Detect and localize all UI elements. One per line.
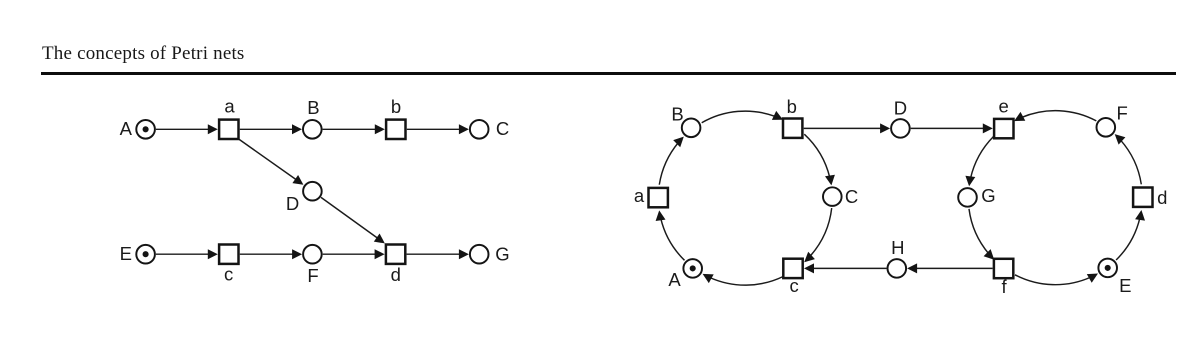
arc B->b <box>702 111 783 123</box>
wire D->e <box>911 123 993 133</box>
transition b <box>386 120 405 139</box>
token in place A (cycle) <box>690 265 696 271</box>
wire B->b <box>323 124 385 134</box>
arc c->A <box>703 274 783 285</box>
svg-text:d: d <box>1157 187 1167 208</box>
arc e->G <box>965 137 993 187</box>
transition c (cycle) <box>783 259 802 278</box>
wire f->H <box>907 263 993 273</box>
svg-text:C: C <box>845 186 858 207</box>
place E (cycle) <box>1098 259 1117 278</box>
svg-text:E: E <box>120 243 132 264</box>
place G <box>470 245 489 264</box>
token in place E (cycle) <box>1105 265 1111 271</box>
transition a <box>219 120 238 139</box>
wire D->d <box>321 197 385 243</box>
svg-text:b: b <box>787 96 797 117</box>
arc E->d <box>1116 210 1145 260</box>
svg-text:A: A <box>120 118 133 139</box>
place C (cycle) <box>823 187 842 206</box>
svg-text:D: D <box>894 97 907 118</box>
heading rule <box>41 72 1176 75</box>
svg-text:e: e <box>998 95 1008 116</box>
place B (cycle) <box>682 119 701 138</box>
wire b->C <box>407 124 469 134</box>
transition c <box>219 245 238 264</box>
svg-text:D: D <box>286 193 299 214</box>
svg-text:c: c <box>224 264 233 285</box>
svg-text:a: a <box>224 96 235 117</box>
wire H->c2 <box>804 263 887 273</box>
page heading <box>42 43 245 65</box>
arc f->E <box>1015 274 1098 285</box>
wire E->c <box>156 249 218 259</box>
wire d->G <box>407 249 469 259</box>
wire c->F <box>240 249 302 259</box>
place C <box>470 120 489 139</box>
wire b->D <box>804 123 890 133</box>
svg-text:E: E <box>1119 275 1131 296</box>
transition b (cycle) <box>783 119 802 138</box>
arc d->F <box>1115 134 1142 184</box>
svg-text:B: B <box>307 97 319 118</box>
place D <box>303 182 322 201</box>
arc G->f <box>969 209 994 260</box>
token in place E <box>143 251 149 257</box>
place A (cycle) <box>683 259 702 278</box>
transition f (cycle) <box>994 259 1013 278</box>
transition d <box>386 245 405 264</box>
arc F->e <box>1014 111 1096 121</box>
place G (cycle) <box>958 188 977 207</box>
wire F->d <box>323 249 385 259</box>
place H (middle) <box>888 259 907 278</box>
transition d (cycle) <box>1133 188 1152 207</box>
svg-text:F: F <box>307 265 318 286</box>
place B <box>303 120 322 139</box>
wire A->a <box>156 124 218 134</box>
place F <box>303 245 322 264</box>
wire a->D <box>238 139 303 185</box>
svg-text:d: d <box>391 264 401 285</box>
place F (cycle) <box>1097 118 1116 137</box>
svg-text:H: H <box>891 237 904 258</box>
svg-text:C: C <box>496 118 509 139</box>
svg-text:a: a <box>634 185 645 206</box>
transition e (cycle) <box>994 119 1013 138</box>
arc b->C <box>804 134 835 185</box>
svg-text:G: G <box>981 185 995 206</box>
svg-text:A: A <box>668 269 681 290</box>
svg-text:f: f <box>1002 276 1008 297</box>
svg-text:c: c <box>789 275 798 296</box>
transition a (cycle) <box>649 188 668 207</box>
place A <box>136 120 155 139</box>
arc C->c <box>804 208 832 262</box>
svg-text:B: B <box>671 103 683 124</box>
svg-text:b: b <box>391 96 401 117</box>
arc A->a <box>656 210 685 260</box>
place D (middle) <box>891 119 910 138</box>
wire a->B <box>240 124 302 134</box>
token in place A <box>143 126 149 132</box>
svg-text:F: F <box>1117 102 1128 123</box>
place E <box>136 245 155 264</box>
arc a->B <box>659 137 684 185</box>
svg-text:G: G <box>495 244 509 265</box>
